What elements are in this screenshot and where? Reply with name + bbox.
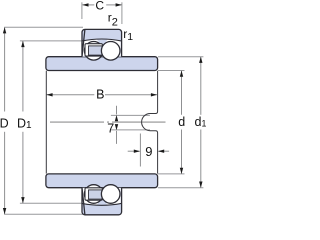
svg-text:d1: d1 [195,115,207,129]
svg-text:7: 7 [107,121,114,135]
svg-text:C: C [95,0,104,12]
svg-text:r1: r1 [123,27,133,43]
svg-text:B: B [96,88,104,102]
svg-text:D1: D1 [17,117,32,132]
svg-text:D: D [0,117,9,131]
svg-text:9: 9 [145,144,152,159]
svg-text:d: d [178,115,185,129]
svg-text:r2: r2 [108,10,118,28]
